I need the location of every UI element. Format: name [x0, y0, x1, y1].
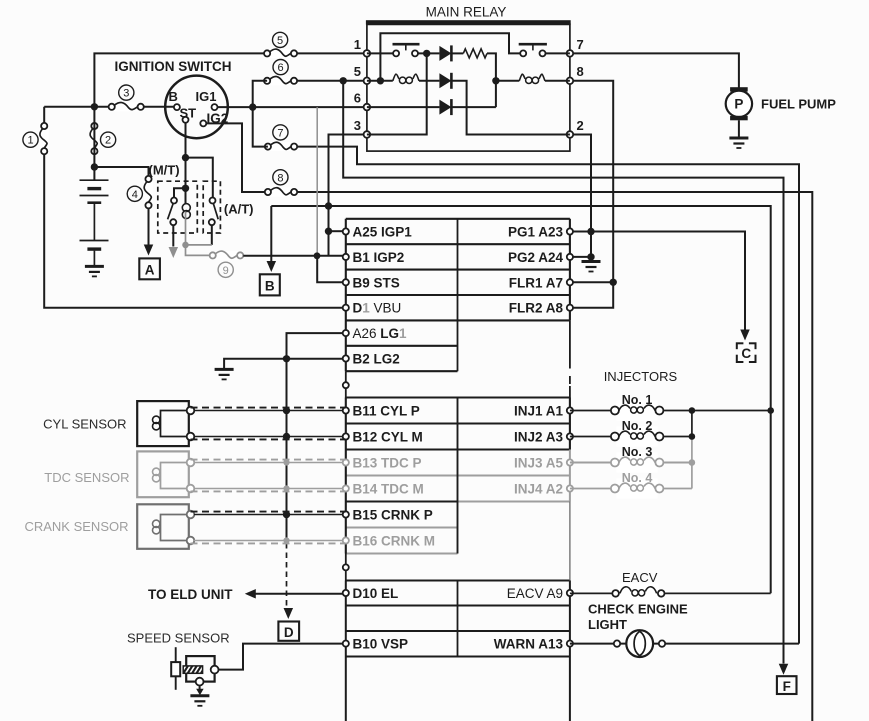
- label circled 8: [273, 170, 288, 185]
- connector box A: [139, 258, 160, 279]
- wire IG1 to main relay pin 6: [218, 106, 367, 108]
- svg-text:IG1: IG1: [196, 89, 217, 104]
- relay pin 1: [354, 37, 370, 57]
- svg-text:3: 3: [354, 118, 361, 133]
- wire switch2 to battery: [93, 107, 95, 180]
- svg-text:LIGHT: LIGHT: [588, 617, 627, 632]
- battery: [80, 180, 109, 266]
- svg-text:B14 TDC M: B14 TDC M: [353, 482, 424, 497]
- svg-text:C: C: [741, 346, 751, 361]
- terminal IG2 of ignition switch: [200, 120, 206, 126]
- shielded pair B12 CYL M: [191, 437, 346, 440]
- wire ST node to M/T switch: [174, 188, 186, 200]
- ground below speed sensor: [190, 696, 209, 706]
- label circled 3: [119, 85, 134, 100]
- svg-text:D10 EL: D10 EL: [353, 586, 399, 601]
- svg-text:A26 LG1: A26 LG1: [353, 326, 408, 341]
- wire B2 LG2 to ground: [224, 359, 343, 369]
- resistor R: [452, 49, 496, 107]
- junction dot ST node 2: [182, 185, 189, 192]
- svg-text:B12 CYL M: B12 CYL M: [353, 430, 423, 445]
- label CRANK SENSOR: [24, 519, 128, 534]
- breaker switch (3): [109, 102, 144, 111]
- ECU right pins and labels: [494, 225, 573, 652]
- svg-text:FLR2 A8: FLR2 A8: [509, 301, 564, 316]
- gray junction dot: [182, 242, 189, 249]
- wire PG2 pin stub: [570, 256, 591, 258]
- label circled 7: [273, 125, 288, 140]
- wire relay pin7 to fuel pump: [573, 53, 739, 88]
- wire switch7 branch: [297, 147, 799, 644]
- wire branch to A25 IGP1: [329, 230, 343, 232]
- svg-text:EACV A9: EACV A9: [507, 586, 563, 601]
- injector common rail vertical: [691, 411, 693, 489]
- vertical link switch6/switch7 leads: [253, 81, 268, 147]
- starter coil in M/T box: [182, 204, 190, 219]
- svg-text:B16 CRNK M: B16 CRNK M: [353, 534, 436, 549]
- junction dot battery/B-line: [91, 103, 98, 110]
- wire speed sensor to B10 VSP: [218, 644, 342, 670]
- junction dot inj2 rail: [689, 433, 696, 440]
- wire pin6 to diode3: [367, 106, 440, 108]
- wire coil1 to diode2: [419, 80, 439, 82]
- label INJECTORS: [604, 369, 678, 384]
- svg-text:MAIN RELAY: MAIN RELAY: [426, 5, 507, 20]
- svg-text:No. 4: No. 4: [622, 471, 653, 485]
- label (A/T): [224, 202, 254, 217]
- label circled 9: [218, 262, 233, 277]
- svg-text:8: 8: [277, 172, 283, 184]
- svg-text:(A/T): (A/T): [224, 202, 254, 217]
- dashed box A/T: [203, 181, 220, 233]
- junction dot contact1 out: [423, 50, 430, 57]
- svg-text:B: B: [265, 279, 275, 294]
- label (M/T): [149, 163, 180, 178]
- wire node to coil2: [496, 80, 519, 82]
- svg-text:2: 2: [577, 118, 584, 133]
- label IG1: [196, 89, 217, 104]
- arrow to ELD unit: [245, 589, 256, 599]
- svg-text:B10 VSP: B10 VSP: [353, 637, 409, 652]
- wire IG2 to switch8: [206, 123, 264, 192]
- terminal ST of ignition switch: [183, 117, 189, 123]
- arrow into connector D: [284, 608, 294, 619]
- junction dot inj3 rail: [689, 459, 696, 466]
- wire speed sensor to ground: [199, 686, 201, 691]
- junction dot pin5 node: [377, 77, 384, 84]
- svg-text:A: A: [145, 263, 155, 278]
- label IGNITION SWITCH: [115, 59, 232, 74]
- shielded pair B15 CRNK P: [191, 512, 346, 515]
- main relay box: [367, 24, 570, 151]
- junction dot PG1 node: [587, 228, 594, 235]
- gap circle on ECU left edge (upper): [343, 382, 349, 388]
- relay pin 3: [354, 118, 370, 138]
- junction dot node9: [314, 252, 321, 259]
- svg-text:EACV: EACV: [622, 570, 658, 585]
- svg-text:INJECTORS: INJECTORS: [604, 369, 678, 384]
- label circled 1: [23, 132, 38, 147]
- junction dot node IGP feed: [340, 77, 347, 84]
- shielded pair B13 TDC P: [191, 460, 346, 463]
- CRANK sensor: [137, 504, 194, 549]
- label IG2: [207, 111, 229, 126]
- wire PG1 node to connector C arrow: [591, 232, 745, 330]
- junction dot battery top: [91, 163, 98, 170]
- junction dot sensor bus B13: [283, 459, 289, 465]
- svg-text:CYL SENSOR: CYL SENSOR: [43, 417, 126, 432]
- arrow into connector F: [779, 664, 789, 675]
- junction dot ST node 1: [182, 154, 189, 161]
- relay jumper pin5-node to contact2: [380, 33, 520, 81]
- wire switch4 to connector A arrow: [148, 208, 150, 244]
- ground below fuel pump: [729, 138, 748, 148]
- wire A26 LG1 branch: [287, 333, 343, 359]
- wire A/T switch down: [211, 225, 213, 245]
- wire contact1 to diode node: [418, 52, 439, 54]
- wire LG node down sensor bus: [286, 359, 288, 541]
- check engine lamp: [614, 630, 665, 657]
- breaker switch (7): [265, 142, 297, 151]
- wire switch8 long line to bottom edge: [297, 192, 812, 721]
- wire FLR1 pin stub: [570, 281, 613, 283]
- label circled 2: [101, 132, 116, 147]
- wire long line B-to-EACV (y206 bus): [271, 206, 770, 593]
- junction dot sensor bus B12: [283, 433, 290, 440]
- junction dot sensor bus B14: [283, 485, 289, 491]
- terminal B of ignition switch: [174, 104, 180, 110]
- label CYL SENSOR: [43, 417, 126, 432]
- svg-text:INJ4 A2: INJ4 A2: [514, 482, 563, 497]
- svg-text:B15 CRNK P: B15 CRNK P: [353, 508, 433, 523]
- junction dot inj1 to EACV bus: [767, 407, 774, 414]
- svg-text:INJ2 A3: INJ2 A3: [514, 430, 564, 445]
- ignition switch body circle: [165, 76, 228, 139]
- fuel pump motor: [726, 87, 752, 120]
- diode D3: [439, 99, 451, 115]
- arrow into connector C: [740, 330, 750, 341]
- wire battery bus to ignition B terminal: [44, 106, 174, 108]
- gray line IG1 down to node9: [316, 107, 318, 256]
- junction dot LG node: [283, 355, 290, 362]
- ground below PG2: [582, 257, 601, 272]
- wire pin2 to PG1 node: [573, 135, 591, 257]
- wire WARN A13 to long line: [570, 643, 799, 645]
- wire diode2 to pin 2: [452, 81, 570, 135]
- wire connector B arrow from y206 bus: [270, 206, 272, 261]
- gray wire node to A/T stub: [186, 244, 212, 246]
- speed sensor pickup: [171, 647, 218, 690]
- breaker switch (2): [90, 123, 99, 154]
- main relay top bar: [366, 20, 571, 24]
- gray wire node to switch9: [186, 245, 210, 256]
- wire ST down: [185, 123, 187, 204]
- ground for LG lines: [215, 369, 234, 379]
- breaker switch (6): [264, 76, 297, 85]
- label SPEED SENSOR: [127, 631, 230, 646]
- svg-text:No. 2: No. 2: [622, 419, 653, 433]
- relay coil 2: [519, 74, 545, 83]
- svg-text:CRANK SENSOR: CRANK SENSOR: [24, 519, 128, 534]
- label ST: [180, 106, 197, 121]
- junction dot on y206 bus: [325, 202, 332, 209]
- shielded pair B16 CRNK M: [191, 541, 346, 544]
- breaker switch (8): [265, 188, 297, 197]
- relay coil 1: [393, 74, 419, 83]
- label circled 5: [273, 32, 288, 47]
- CYL sensor: [137, 401, 194, 446]
- injector No.1: [570, 393, 771, 421]
- clutch switch M/T: [168, 198, 177, 226]
- injector No.2: [570, 419, 692, 447]
- junction dot PG2 node: [587, 253, 594, 260]
- svg-text:1: 1: [27, 135, 33, 147]
- svg-text:6: 6: [354, 91, 361, 106]
- label B: [169, 89, 178, 104]
- svg-text:6: 6: [278, 62, 284, 74]
- wire pin8 to FLR pins: [570, 81, 613, 308]
- diode D1: [439, 45, 451, 61]
- svg-text:B: B: [169, 89, 178, 104]
- svg-text:INJ3 A5: INJ3 A5: [514, 456, 564, 471]
- connector box F: [777, 676, 797, 694]
- svg-text:D: D: [284, 625, 294, 640]
- svg-text:B2 LG2: B2 LG2: [353, 352, 400, 367]
- label TDC SENSOR: [44, 470, 129, 485]
- wire D10 EL to ELD unit: [253, 593, 343, 595]
- relay pin 7: [567, 37, 584, 57]
- ECU connector grid: [346, 219, 570, 721]
- wire pin3 to contact node: [367, 53, 427, 134]
- svg-text:INJ1 A1: INJ1 A1: [514, 404, 564, 419]
- gray wire coil to node: [185, 212, 187, 245]
- svg-text:A25 IGP1: A25 IGP1: [353, 225, 413, 240]
- wire ignition B feed from battery node to switch 5 (top-left loop): [94, 53, 264, 106]
- svg-text:(M/T): (M/T): [149, 163, 180, 178]
- svg-text:F: F: [783, 679, 791, 694]
- svg-text:7: 7: [577, 37, 584, 52]
- label MAIN RELAY: [426, 5, 507, 20]
- svg-text:No. 3: No. 3: [622, 445, 653, 459]
- relay pin 2: [567, 118, 584, 138]
- EACV valve coil: [570, 583, 771, 603]
- connector box B: [260, 274, 280, 295]
- svg-text:3: 3: [123, 88, 129, 100]
- wire diode3 out: [452, 106, 496, 108]
- wire switch5 to main-relay pin 1: [297, 52, 367, 54]
- relay contact 2: [519, 44, 547, 56]
- svg-text:D1 VBU: D1 VBU: [353, 301, 402, 316]
- svg-text:CHECK ENGINE: CHECK ENGINE: [588, 602, 688, 617]
- arrow into connector B: [267, 261, 277, 272]
- gray arrow below M/T: [169, 247, 179, 258]
- label circled 6: [273, 60, 288, 75]
- label EACV: [622, 570, 658, 585]
- wire contact2 to pin7: [546, 52, 570, 54]
- gap circle on ECU left edge (lower): [343, 564, 349, 570]
- wire switch6 to main-relay pin 5 with junction: [297, 80, 367, 82]
- svg-text:8: 8: [577, 64, 584, 79]
- junction dot A25 branch: [325, 228, 332, 235]
- junction dot sensor bus B16: [283, 537, 289, 543]
- terminal IG1 of ignition switch: [212, 104, 218, 110]
- svg-text:9: 9: [223, 265, 229, 277]
- svg-text:5: 5: [277, 35, 283, 47]
- connector box C: [735, 342, 757, 364]
- arrow to speed sensor ground: [196, 689, 204, 696]
- svg-text:7: 7: [277, 127, 283, 139]
- ECU left pins and labels: [343, 225, 435, 652]
- svg-text:B9 STS: B9 STS: [353, 275, 400, 290]
- breaker switch (1): [40, 123, 49, 154]
- svg-text:B1 IGP2: B1 IGP2: [353, 250, 405, 265]
- breaker switch (4): [144, 176, 153, 209]
- svg-text:ST: ST: [180, 106, 197, 121]
- dashed wire sensor bus to connector D: [286, 543, 288, 609]
- relay contact 1: [393, 44, 420, 56]
- neutral switch A/T: [209, 198, 218, 226]
- arrow into connector A: [144, 245, 154, 256]
- svg-text:No. 1: No. 1: [622, 393, 653, 407]
- wire M/T switch to gray arrow: [172, 225, 174, 246]
- svg-text:PG2 A24: PG2 A24: [508, 250, 564, 265]
- svg-text:FUEL PUMP: FUEL PUMP: [761, 97, 836, 112]
- svg-text:4: 4: [132, 189, 138, 201]
- wire coil2 to pin8: [545, 80, 570, 82]
- svg-text:PG1 A23: PG1 A23: [508, 225, 564, 240]
- junction dot IG1 node: [249, 103, 256, 110]
- wire ST node to A/T switch: [186, 158, 213, 201]
- diode D2: [439, 73, 451, 89]
- dashed box M/T: [158, 181, 198, 233]
- breaker switch (5): [264, 49, 297, 58]
- wire pump to ground: [738, 120, 740, 137]
- TDC sensor: [137, 451, 194, 497]
- label FUEL PUMP: [761, 97, 836, 112]
- relay pin 5: [354, 64, 370, 84]
- injector No.3: [570, 445, 692, 473]
- ground below battery: [85, 266, 104, 276]
- connector box D: [278, 622, 299, 641]
- svg-text:B13 TDC P: B13 TDC P: [353, 456, 422, 471]
- wire switch1 column to D1 VBU: [44, 107, 343, 308]
- label CHECK ENGINE LIGHT: [588, 602, 688, 633]
- svg-text:SPEED SENSOR: SPEED SENSOR: [127, 631, 230, 646]
- wire node to long line F (to connector F): [343, 81, 783, 664]
- relay pin 6: [354, 91, 370, 111]
- svg-text:IGNITION SWITCH: IGNITION SWITCH: [115, 59, 232, 74]
- svg-text:FLR1 A7: FLR1 A7: [509, 275, 563, 290]
- svg-text:TDC SENSOR: TDC SENSOR: [44, 470, 129, 485]
- svg-text:B11 CYL P: B11 CYL P: [353, 404, 420, 419]
- injector No.4: [570, 471, 692, 499]
- wire battery node to switch4: [94, 167, 148, 205]
- junction dot resistor/coil2 node: [492, 77, 499, 84]
- shielded pair B11 CYL P: [191, 408, 346, 411]
- svg-text:WARN A13: WARN A13: [494, 637, 564, 652]
- svg-text:P: P: [734, 97, 743, 112]
- svg-text:2: 2: [105, 135, 111, 147]
- junction dot sensor bus B15: [283, 511, 290, 518]
- wire pin3 feed down to A25/B1: [329, 135, 367, 256]
- junction dot inj1 rail: [689, 407, 696, 414]
- svg-text:1: 1: [354, 37, 361, 52]
- shielded pair B14 TDC M: [191, 489, 346, 492]
- wire B9 STS branch: [317, 256, 346, 282]
- wire PG1 pin stub: [570, 231, 591, 233]
- gray breaker switch (9): [210, 251, 244, 260]
- label circled 4: [127, 186, 142, 201]
- label TO ELD UNIT: [148, 587, 233, 602]
- svg-text:TO ELD UNIT: TO ELD UNIT: [148, 587, 233, 602]
- svg-text:5: 5: [354, 64, 361, 79]
- wire pin5 to coil1: [367, 80, 393, 82]
- relay pin 8: [567, 64, 584, 84]
- wire switch9 to B1 IGP2: [243, 255, 342, 257]
- junction dot FLR1 node: [610, 279, 617, 286]
- wire pin1 to contact1: [367, 52, 396, 54]
- junction dot sensor bus B11: [283, 407, 290, 414]
